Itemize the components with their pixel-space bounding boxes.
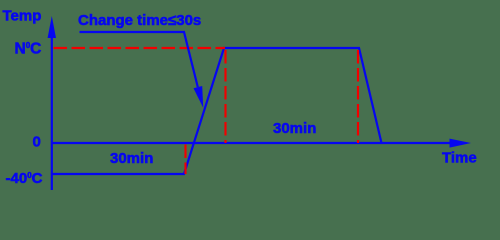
red dashed horizontal at N°C level: [54, 47, 226, 49]
red dashed vertical at fall start (x=358): [357, 50, 359, 143]
y-axis arrowhead: [48, 16, 56, 38]
x-axis arrowhead: [450, 139, 472, 148]
svg-text:Change time≤30s: Change time≤30s: [78, 12, 201, 29]
y-axis (Temp axis) line: [51, 36, 53, 190]
svg-text:Time: Time: [442, 150, 477, 167]
svg-text:30min: 30min: [110, 150, 153, 167]
leader line for change-time annotation: [80, 32, 198, 87]
red dashed vertical at rise start (x=185): [184, 145, 186, 175]
svg-text:0: 0: [33, 133, 41, 150]
x-axis (Time axis) line: [51, 142, 450, 144]
red dashed vertical at rise end (x=225): [224, 50, 226, 143]
temperature profile waveform: [51, 48, 382, 174]
svg-text:-400C: -400C: [6, 170, 43, 187]
leader arrowhead: [194, 86, 204, 108]
svg-text:30min: 30min: [273, 120, 316, 137]
svg-text:Temp: Temp: [3, 8, 42, 25]
